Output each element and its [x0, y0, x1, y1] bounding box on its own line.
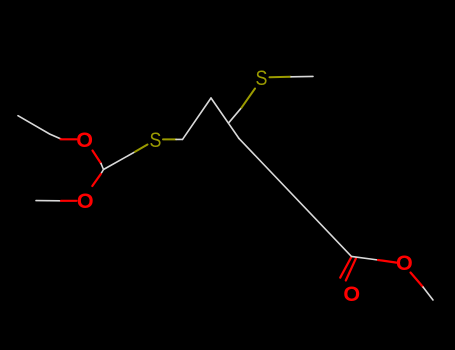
wire P-Y descent white through Cstar	[211, 98, 239, 139]
wire C=O3 double bond second red	[346, 258, 356, 280]
wire CH2-S1 olive part	[135, 145, 148, 152]
svg-text:O: O	[343, 282, 360, 306]
wire C-O4 red part	[378, 260, 397, 263]
wire C=O3 double bond main red	[340, 257, 351, 278]
wire CH2-O1 red	[61, 138, 77, 140]
wire O1-acetalC white part	[101, 164, 104, 170]
wire CH3-O2 white part	[36, 200, 61, 202]
wire S2-CH3 white part	[291, 75, 313, 77]
svg-text:O: O	[76, 128, 93, 152]
wire S1-X olive part horizontal	[163, 138, 176, 140]
svg-text:O: O	[77, 189, 94, 213]
wire O4-CH3 white part	[423, 287, 433, 300]
wire Cstar-S2 olive part	[242, 89, 256, 108]
wire acetalC-CH2-S1 white part	[104, 152, 136, 170]
wire acetalC-O2 red part	[92, 174, 101, 186]
wire X-P peak ascent white	[183, 98, 212, 139]
wire O1-acetalC red part	[93, 151, 102, 164]
wire acetalC-O2 white part	[101, 170, 104, 175]
wire C-O4 white part	[351, 256, 378, 260]
wire CH3-O2 red part	[61, 200, 77, 202]
svg-text:S: S	[255, 67, 267, 91]
wire O4-CH3 red part	[411, 273, 424, 288]
svg-text:S: S	[149, 129, 161, 153]
wire chain Y to carbonyl C white straight run	[239, 138, 352, 256]
svg-text:O: O	[396, 251, 413, 275]
wire Cstar-S2 white part	[228, 108, 241, 124]
wire ethyl CH3-CH2 top left white	[18, 116, 61, 139]
wire S2-CH3 olive part	[270, 76, 292, 78]
wire S1-X white part horizontal	[176, 138, 183, 140]
